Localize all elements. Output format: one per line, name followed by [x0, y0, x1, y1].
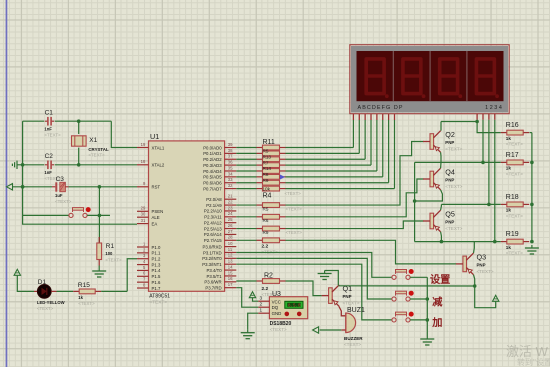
svg-text:R13: R13	[263, 154, 272, 159]
svg-text:P1.1: P1.1	[152, 251, 161, 256]
svg-text:P3.2/INT0: P3.2/INT0	[202, 256, 222, 261]
svg-text:<TEXT>: <TEXT>	[37, 306, 54, 311]
svg-text:P2.4/A12: P2.4/A12	[204, 220, 222, 225]
svg-text:AT89C51: AT89C51	[149, 294, 170, 300]
svg-text:<TEXT>: <TEXT>	[286, 207, 303, 212]
svg-text:32: 32	[228, 183, 233, 188]
svg-text:<TEXT>: <TEXT>	[506, 142, 523, 147]
svg-text:XTAL1: XTAL1	[152, 145, 165, 150]
svg-text:P1.4: P1.4	[152, 268, 161, 273]
svg-text:100: 100	[105, 251, 113, 256]
svg-text:PNP: PNP	[343, 294, 352, 299]
svg-text:R11: R11	[263, 139, 275, 146]
svg-text:24: 24	[228, 211, 233, 216]
svg-text:10k: 10k	[263, 187, 271, 192]
svg-text:P2.0/A8: P2.0/A8	[206, 197, 222, 202]
svg-text:X1: X1	[89, 137, 97, 144]
svg-text:P0.2/AD2: P0.2/AD2	[203, 157, 222, 162]
svg-text:12: 12	[228, 253, 233, 258]
svg-text:P1.2: P1.2	[152, 257, 161, 262]
svg-text:1: 1	[259, 308, 262, 313]
svg-text:25: 25	[228, 217, 233, 222]
svg-text:P3.4/T0: P3.4/T0	[207, 268, 223, 273]
svg-text:Q2: Q2	[445, 130, 455, 139]
svg-text:34: 34	[228, 171, 233, 176]
svg-text:<TEXT>: <TEXT>	[270, 327, 287, 332]
svg-text:<TEXT>: <TEXT>	[44, 132, 61, 137]
svg-text:R5: R5	[263, 149, 269, 154]
svg-text:37: 37	[228, 154, 233, 159]
svg-text:P3.1/TXD: P3.1/TXD	[203, 250, 222, 255]
svg-text:激活 W: 激活 W	[506, 344, 549, 359]
svg-text:<TEXT>: <TEXT>	[105, 257, 122, 262]
svg-text:P2.1/A9: P2.1/A9	[206, 203, 222, 208]
svg-text:P0.7/AD7: P0.7/AD7	[203, 186, 222, 191]
svg-text:R2: R2	[264, 273, 273, 280]
svg-text:10: 10	[228, 241, 233, 246]
svg-text:P2.3/A11: P2.3/A11	[204, 215, 222, 220]
svg-text:27: 27	[228, 229, 233, 234]
svg-text:P1.3: P1.3	[152, 262, 161, 267]
svg-text:22: 22	[228, 199, 233, 204]
svg-text:31: 31	[141, 218, 146, 223]
svg-text:15: 15	[228, 270, 233, 275]
svg-text:13: 13	[228, 259, 233, 264]
svg-text:XTAL2: XTAL2	[152, 163, 165, 168]
svg-text:Q3: Q3	[477, 252, 487, 261]
svg-text:R9: R9	[263, 230, 269, 235]
svg-text:1k: 1k	[506, 208, 512, 213]
svg-text:P3.3/INT1: P3.3/INT1	[202, 262, 222, 267]
svg-text:Q5: Q5	[445, 210, 455, 219]
svg-text:P1.7: P1.7	[152, 286, 161, 291]
svg-text:P2.2/A10: P2.2/A10	[204, 209, 222, 214]
svg-text:P2.6/A14: P2.6/A14	[204, 232, 222, 237]
svg-text:ABCDEFG DP: ABCDEFG DP	[358, 105, 404, 111]
svg-text:<TEXT>: <TEXT>	[506, 171, 523, 176]
svg-text:<TEXT>: <TEXT>	[506, 213, 523, 218]
svg-text:28: 28	[228, 235, 233, 240]
svg-text:16: 16	[228, 276, 233, 281]
svg-text:19: 19	[141, 142, 146, 147]
svg-text:33: 33	[228, 177, 233, 182]
svg-text:1234: 1234	[485, 105, 503, 111]
svg-text:35: 35	[228, 165, 233, 170]
svg-text:设置: 设置	[430, 273, 450, 286]
svg-text:R6: R6	[263, 218, 269, 223]
svg-text:VCC: VCC	[272, 299, 281, 304]
svg-text:R5: R5	[263, 207, 269, 212]
svg-text:P0.3/AD3: P0.3/AD3	[203, 163, 222, 168]
svg-text:<TEXT>: <TEXT>	[445, 226, 462, 231]
svg-text:R4: R4	[263, 193, 272, 200]
svg-text:1k: 1k	[78, 295, 83, 300]
svg-text:P0.6/AD6: P0.6/AD6	[203, 181, 222, 186]
svg-text:<TEXT>: <TEXT>	[506, 251, 523, 256]
svg-text:1nF: 1nF	[44, 127, 52, 132]
svg-text:R17: R17	[506, 152, 519, 159]
svg-text:P0.1/AD1: P0.1/AD1	[203, 151, 222, 156]
svg-text:<TEXT>: <TEXT>	[445, 184, 462, 189]
svg-text:R16: R16	[506, 122, 519, 129]
svg-text:R1: R1	[106, 243, 115, 250]
svg-text:R15: R15	[78, 282, 90, 289]
svg-text:<TEXT>: <TEXT>	[344, 342, 361, 347]
svg-text:1k: 1k	[506, 166, 512, 171]
svg-text:P3.5/T1: P3.5/T1	[207, 274, 223, 279]
svg-text:LED-YELLOW: LED-YELLOW	[37, 300, 65, 305]
svg-text:<TEXT>: <TEXT>	[445, 147, 462, 152]
svg-text:<TEXT>: <TEXT>	[343, 301, 360, 306]
svg-text:<TEXT>: <TEXT>	[88, 153, 105, 158]
svg-text:8.5.0: 8.5.0	[288, 305, 301, 309]
svg-text:P1.5: P1.5	[152, 274, 161, 279]
svg-text:R7: R7	[263, 160, 269, 165]
svg-text:DQ: DQ	[272, 305, 279, 310]
svg-text:PNP: PNP	[477, 262, 486, 267]
svg-text:C1: C1	[45, 110, 54, 117]
svg-text:P0.0/AD0: P0.0/AD0	[203, 145, 222, 150]
svg-text:23: 23	[228, 205, 233, 210]
svg-text:R8: R8	[263, 172, 269, 177]
svg-text:CRYSTAL: CRYSTAL	[88, 147, 109, 152]
svg-text:U3: U3	[272, 291, 281, 298]
svg-text:EA: EA	[152, 221, 158, 226]
svg-text:1k: 1k	[506, 136, 512, 141]
svg-text:<TEXT>: <TEXT>	[78, 301, 95, 306]
svg-text:PNP: PNP	[445, 220, 454, 225]
svg-text:BUZ1: BUZ1	[347, 307, 365, 314]
svg-text:17: 17	[228, 282, 233, 287]
svg-text:<TEXT>: <TEXT>	[149, 300, 167, 306]
svg-text:36: 36	[228, 160, 233, 165]
svg-text:P2.7/A15: P2.7/A15	[204, 238, 222, 243]
svg-text:1nF: 1nF	[44, 170, 52, 175]
svg-text:GND: GND	[272, 311, 282, 316]
svg-text:2: 2	[259, 302, 262, 307]
svg-text:C2: C2	[45, 153, 54, 160]
svg-text:R18: R18	[506, 194, 519, 201]
svg-text:1k: 1k	[506, 245, 512, 250]
svg-text:BUZZER: BUZZER	[344, 336, 363, 341]
svg-text:转到"设置"以: 转到"设置"以	[517, 357, 550, 367]
svg-text:P0.5/AD5: P0.5/AD5	[203, 175, 222, 180]
svg-text:P3.6/WR: P3.6/WR	[204, 280, 221, 285]
svg-text:29: 29	[141, 206, 146, 211]
svg-text:DS18B20: DS18B20	[270, 321, 292, 327]
svg-text:18: 18	[141, 159, 146, 164]
svg-text:P2.5/A13: P2.5/A13	[204, 226, 222, 231]
svg-text:21: 21	[228, 194, 233, 199]
svg-text:14: 14	[228, 264, 233, 269]
svg-text:<TEXT>: <TEXT>	[477, 269, 494, 274]
svg-text:ALE: ALE	[152, 215, 160, 220]
svg-text:38: 38	[228, 148, 233, 153]
svg-text:P1.6: P1.6	[152, 280, 161, 285]
svg-text:C3: C3	[56, 176, 65, 183]
svg-text:2.2: 2.2	[262, 286, 269, 292]
svg-text:<TEXT>: <TEXT>	[55, 199, 72, 204]
svg-text:P0.4/AD4: P0.4/AD4	[203, 169, 222, 174]
svg-text:R14: R14	[263, 166, 272, 171]
svg-text:Q4: Q4	[445, 168, 455, 177]
svg-text:3: 3	[259, 296, 262, 301]
svg-text:D1: D1	[38, 279, 47, 286]
svg-text:30: 30	[141, 212, 146, 217]
svg-text:<TEXT>: <TEXT>	[285, 191, 302, 196]
svg-text:PNP: PNP	[445, 178, 454, 183]
svg-text:11: 11	[228, 247, 233, 252]
svg-text:<TEXT>: <TEXT>	[286, 230, 303, 235]
svg-text:PNP: PNP	[445, 140, 454, 145]
svg-text:P3.0/RXD: P3.0/RXD	[202, 244, 221, 249]
svg-text:P3.7/RD: P3.7/RD	[205, 285, 221, 290]
svg-text:U1: U1	[150, 132, 159, 141]
svg-text:R9: R9	[263, 178, 269, 183]
svg-text:减: 减	[432, 296, 443, 309]
svg-text:1uF: 1uF	[55, 193, 63, 198]
svg-text:PSEN: PSEN	[152, 209, 164, 214]
svg-text:P1.0: P1.0	[152, 245, 161, 250]
svg-text:26: 26	[228, 223, 233, 228]
svg-text:39: 39	[228, 142, 233, 147]
svg-text:RST: RST	[152, 185, 161, 190]
svg-text:加: 加	[431, 316, 442, 329]
svg-text:R19: R19	[506, 231, 519, 238]
